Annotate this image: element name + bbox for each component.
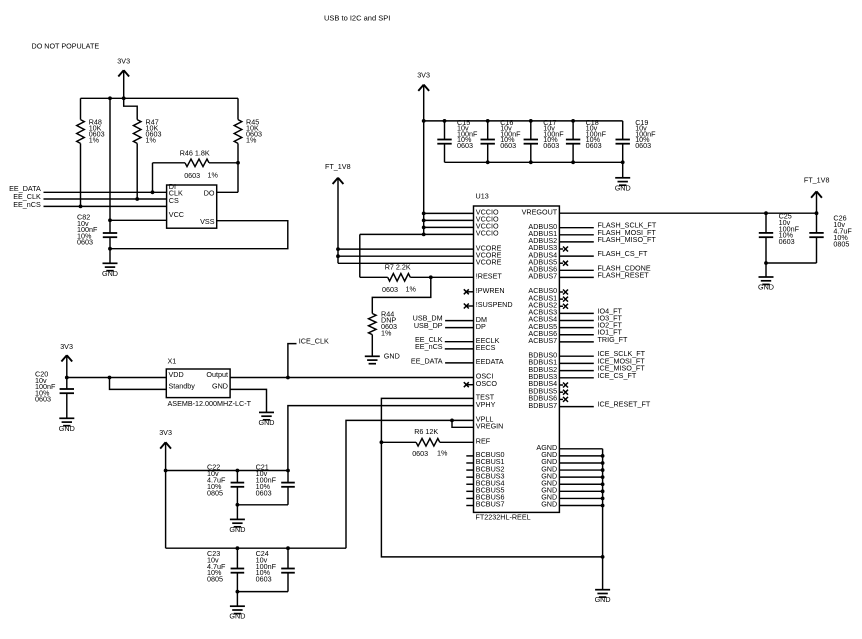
svg-text:OSCO: OSCO [476,379,498,388]
wire EE_DATA [44,191,167,193]
resistor R46 [153,159,239,167]
pin VDD [169,370,184,379]
wire C23/C24 bottoms [237,591,288,593]
label C16 values [500,118,521,150]
label X1 part number [168,399,252,408]
capacitor C17 [524,121,538,162]
wire VCC [110,219,167,221]
label R45 values [246,117,262,144]
svg-text:0603: 0603 [457,141,473,150]
pin EEDATA [476,357,504,366]
pin ADBUS1 [528,229,557,238]
pin !SUSPEND [476,300,513,309]
pin ADBUS4 [528,250,557,259]
pin ACBUS4 [528,315,557,324]
no-connect !SUSPEND [464,304,474,309]
wire 3V3 rail [81,97,239,99]
wire BDBUS2 [559,370,593,372]
pin DP [476,322,486,331]
label USB_DM [413,314,443,323]
resistor R44 [369,314,377,357]
pin VSS [200,217,215,226]
junction [601,504,605,508]
svg-text:1%: 1% [208,171,219,180]
svg-text:0603: 0603 [35,395,51,404]
ground [615,162,631,192]
svg-text:EE_DATA: EE_DATA [411,357,443,366]
label X1 [168,357,177,366]
capacitor C19 [616,121,630,162]
svg-text:ACBUS7: ACBUS7 [528,336,557,345]
wire DO to R45 [217,163,238,193]
wire VREGIN jog [452,420,474,427]
wire ICE_CLK stub [288,344,297,378]
pin !PWREN [476,286,505,295]
svg-text:EE_nCS: EE_nCS [13,200,41,209]
svg-text:3V3: 3V3 [117,57,130,66]
label TRIG_FT [598,335,629,344]
label IO3_FT [598,313,623,322]
svg-text:FLASH_CS_FT: FLASH_CS_FT [598,249,649,258]
label R6 value [414,427,438,436]
label C26 values [833,214,852,249]
wire decoupling rail top [424,120,623,122]
svg-text:VCC: VCC [169,210,184,219]
svg-text:3V3: 3V3 [60,342,73,351]
junction [486,119,490,123]
no-connect ACBUS2 [559,304,568,309]
pin REF [476,437,491,446]
svg-text:FT_1V8: FT_1V8 [325,162,351,171]
wire 3V3 to C82/VCC [109,98,111,220]
svg-text:VREGIN: VREGIN [476,422,504,431]
svg-text:0603: 0603 [184,171,200,180]
resistor R7 [360,274,431,282]
no-connect ACBUS0 [559,290,568,295]
label IO2_FT [598,321,623,330]
wire AGND [559,448,602,450]
wire ADBUS4 [559,255,593,257]
wire R46 to EE_DATA [152,163,154,193]
wire GND [559,483,602,485]
svg-text:ASEMB-12.000MHZ-LC-T: ASEMB-12.000MHZ-LC-T [168,399,252,408]
label FLASH_MISO_FT [598,235,657,244]
pin GND7 [541,493,557,502]
pin BDBUS0 [528,350,557,359]
pin EECS [476,343,496,352]
pin GND3 [541,464,557,473]
ground [595,590,611,605]
wire VCCIO [424,219,474,221]
ground [259,412,275,427]
svg-text:GND: GND [384,352,400,361]
label C20 values [35,370,56,404]
pin Output [206,370,228,379]
junction R48/EE_nCS [79,205,83,209]
label C82 values [77,213,98,247]
wire 3V3 down to R7 [359,234,361,277]
wire 3V3 cap rail 2 [166,547,346,549]
label EE_CLK [415,335,443,344]
svg-text:FT2232HL-REEL: FT2232HL-REEL [476,513,531,522]
wire Standby jog [110,378,167,390]
junction [65,376,69,380]
pin GND6 [541,486,557,495]
svg-text:0603: 0603 [586,141,602,150]
label EE_nCS [415,342,443,351]
svg-text:0805: 0805 [207,488,223,497]
pin CS [169,196,179,205]
svg-text:0603: 0603 [256,574,272,583]
pin CLK [169,189,183,198]
capacitor C82 [103,220,117,248]
pin VREGOUT [522,207,558,216]
wire DM [445,320,473,322]
label FLASH_RESET [598,270,650,279]
resistor R6 [381,439,473,447]
wire ACBUS6 [559,334,593,336]
pin BDBUS1 [528,358,557,367]
no-connect !PWREN [464,289,474,294]
svg-text:0603: 0603 [412,449,428,458]
svg-text:BDBUS7: BDBUS7 [528,401,557,410]
pin BCBUS4 [466,478,504,487]
svg-text:0603: 0603 [779,237,795,246]
wire GND [559,505,602,507]
label IO4_FT [598,306,623,315]
svg-text:VCCIO: VCCIO [476,229,499,238]
wire 3V3 cap rail 1 [166,470,288,472]
wire ADBUS6 [559,269,593,271]
ground [365,352,400,364]
svg-text:ICE_RESET_FT: ICE_RESET_FT [598,400,651,409]
pin TEST [476,393,495,402]
junction [108,96,112,100]
svg-text:!RESET: !RESET [476,272,503,281]
svg-text:Standby: Standby [169,382,196,391]
svg-text:0603: 0603 [543,141,559,150]
wire VCORE3 [338,262,474,264]
pin BCBUS2 [466,464,504,473]
junction [236,469,240,473]
junction [380,440,384,444]
label ICE_CLK [299,336,329,345]
wire GND [559,455,602,457]
junction [529,119,533,123]
svg-text:DO NOT POPULATE: DO NOT POPULATE [32,41,100,50]
junction [815,211,819,215]
wire VCCIO [424,212,474,214]
svg-text:X1: X1 [168,357,177,366]
capacitor C18 [566,121,580,162]
power 3V3 (caps) [159,428,172,471]
svg-text:3V3: 3V3 [417,70,430,79]
wire DP [445,327,473,329]
wire ADBUS7 [559,276,593,278]
capacitor C25 [759,213,773,263]
label C15 values [457,118,478,150]
label ICE_CS_FT [598,371,637,380]
pin BCBUS0 [466,450,504,459]
capacitor C24 [281,548,295,591]
junction [764,261,768,265]
junction [236,590,240,594]
svg-text:0805: 0805 [207,574,223,583]
pin OSCI [476,372,494,381]
svg-text:1%: 1% [89,135,100,144]
svg-text:!SUSPEND: !SUSPEND [476,300,513,309]
pin VCCIO [476,222,499,231]
junction R47/EE_CLK [135,197,139,201]
label R47 values [146,117,162,144]
ground [229,505,245,534]
label U13 part number [476,513,531,522]
junction [601,475,605,479]
wire C25/C26 bottoms [766,262,817,264]
wire GND [559,469,602,471]
pin ACBUS7 [528,336,557,345]
pin BCBUS5 [466,486,504,495]
oscillator X1 box [166,369,230,398]
no-connect ADBUS5 [559,261,568,266]
pin BDBUS4 [528,379,557,388]
junction [236,546,240,550]
svg-text:ICE_CS_FT: ICE_CS_FT [598,371,637,380]
label IO1_FT [598,328,623,337]
svg-text:TRIG_FT: TRIG_FT [598,335,629,344]
label ICE_MISO_FT [598,364,646,373]
pin GND8 [541,500,557,509]
resistor R47 [133,120,141,199]
pin VCORE [476,258,502,267]
wire VSS return [110,221,288,249]
label C24 values [256,549,277,583]
wire VPHY to 3V3 [288,406,474,471]
title text [324,14,390,23]
junction [443,119,447,123]
pin ACBUS1 [528,293,557,302]
resistor R45 [234,98,242,163]
wire 3V3 down [165,471,167,549]
junction [764,211,768,215]
pin ADBUS0 [528,222,557,231]
wire BDBUS1 [559,362,593,364]
ground [102,249,118,278]
wire BDBUS3 [559,377,593,379]
pin GND2 [541,457,557,466]
capacitor C22 [231,471,245,505]
label EE_nCS [13,200,41,209]
no-connect BDBUS5 [559,390,568,395]
svg-text:0603: 0603 [77,238,93,247]
svg-text:GND: GND [212,382,228,391]
wire EEDATA [445,362,473,364]
wire decoupling rail bottom [445,161,623,163]
no-connect ADBUS3 [559,247,568,252]
junction [286,376,290,380]
svg-text:REF: REF [476,437,491,446]
pin BDBUS7 [528,401,557,410]
svg-text:VPHY: VPHY [476,400,496,409]
svg-text:3V3: 3V3 [159,428,172,437]
pin VCCIO [476,215,499,224]
junction [429,275,433,279]
pin GND [212,382,228,391]
pin BDBUS2 [528,365,557,374]
junction [108,247,112,251]
pin VCORE [476,250,502,259]
junction [108,376,112,380]
pin EECLK [476,336,500,345]
junction [164,469,168,473]
pin BDBUS5 [528,386,557,395]
ground [229,592,245,621]
junction [122,96,126,100]
svg-text:0603: 0603 [635,141,651,150]
ic U13 box [474,206,560,512]
pin VCCIO [476,208,499,217]
pin Standby [169,382,196,391]
wire EE_nCS [44,205,167,207]
junction [450,419,454,423]
wire VCCIO [424,226,474,228]
junction [601,489,605,493]
svg-text:1%: 1% [406,285,417,294]
pin VCC [169,210,184,219]
wire ADBUS2 [559,241,593,243]
junction [601,555,605,559]
wire GND [559,476,602,478]
svg-text:U13: U13 [476,192,489,201]
label C18 values [586,118,607,150]
label EE_DATA [9,184,41,193]
pin VPHY [476,400,496,409]
junction [601,454,605,458]
pin BCBUS6 [466,493,504,502]
label R6 footprint [412,448,448,457]
wire VPLL to 3V3 [346,420,474,548]
label C19 values [635,118,656,150]
wire ACBUS5 [559,327,593,329]
label FLASH_CS_FT [598,249,649,258]
svg-text:VREGOUT: VREGOUT [522,207,558,216]
pin AGND [536,443,557,452]
svg-text:1%: 1% [146,135,157,144]
junction [601,497,605,501]
wire GND [559,490,602,492]
label FLASH_MOSI_FT [598,228,657,237]
ground [758,263,774,292]
pin ADBUS2 [528,236,557,245]
power 3V3 (EEPROM pullups) [117,57,130,99]
junction [601,482,605,486]
label EE_CLK [13,192,41,201]
pin !RESET [476,272,503,281]
junction [422,119,426,123]
capacitor C20 [60,378,74,419]
junction [286,546,290,550]
wire EE_CLK [44,198,167,200]
pin DI [169,182,176,191]
pin OSCO [476,379,498,388]
svg-text:ICE_CLK: ICE_CLK [299,336,329,345]
label C17 values [543,118,564,150]
junction [571,119,575,123]
wire TEST to GND [381,398,602,557]
svg-text:0603: 0603 [256,488,272,497]
pin BCBUS3 [466,471,504,480]
svg-text:1%: 1% [381,328,392,337]
svg-text:BCBUS7: BCBUS7 [476,500,505,509]
wire C22/C21 bottoms [237,504,288,506]
svg-text:1%: 1% [437,448,448,457]
junction [601,461,605,465]
svg-text:EE_nCS: EE_nCS [415,342,443,351]
label ICE_RESET_FT [598,400,651,409]
junction [621,160,625,164]
svg-text:FLASH_MISO_FT: FLASH_MISO_FT [598,235,657,244]
label R44 values [381,309,397,337]
wire Output to OSCI [230,377,473,379]
wire GND [559,497,602,499]
svg-text:0805: 0805 [833,239,849,248]
wire RESET to R44 [372,277,431,313]
wire VCORE2 [338,255,474,257]
junction [286,469,290,473]
pin DM [476,315,487,324]
pin DO [204,189,215,198]
svg-text:R7 2.2K: R7 2.2K [385,262,411,271]
wire EECS [445,348,474,350]
svg-text:R46 1.8K: R46 1.8K [180,148,210,157]
no-connect ACBUS1 [559,297,568,302]
wire GND bus [602,449,604,590]
svg-text:!PWREN: !PWREN [476,286,505,295]
junction [422,226,426,230]
wire !RESET [431,276,474,278]
junction [336,247,340,251]
wire BDBUS7 [559,406,593,408]
label R7 value [385,262,411,271]
svg-text:VSS: VSS [200,217,215,226]
label C23 values [207,549,226,583]
pin ADBUS3 [528,243,557,252]
capacitor C23 [231,548,245,591]
no-connect BDBUS4 [559,383,568,388]
eeprom U? box [167,185,217,228]
ground [59,418,75,433]
wire X1 GND [230,389,266,412]
power 3V3 (X1) [60,342,73,378]
junction [601,468,605,472]
svg-text:GND: GND [541,500,557,509]
label U13 [476,192,489,201]
no-connect BDBUS6 [559,397,568,402]
wire 3V3 to VDD [67,377,167,379]
junction node R45/R46/DO [236,161,240,165]
capacitor C15 [437,121,451,162]
wire ADBUS0 [559,227,593,229]
label R7 footprint [382,285,416,294]
svg-text:1%: 1% [246,135,257,144]
pin VCORE [476,243,502,252]
junction [571,160,575,164]
wire VCORE1 [338,248,474,250]
power FT_1V8 (VCORE) [325,162,351,263]
pin VCCIO [476,229,499,238]
label ICE_SCLK_FT [598,349,646,358]
junction [529,160,533,164]
